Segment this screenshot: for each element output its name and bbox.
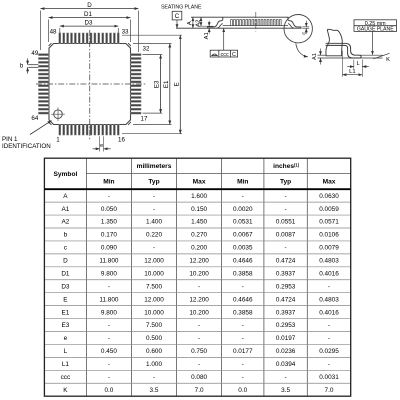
svg-text:-: - xyxy=(153,206,155,213)
svg-text:0.050: 0.050 xyxy=(101,206,117,213)
svg-text:10.000: 10.000 xyxy=(144,309,164,316)
svg-text:0.600: 0.600 xyxy=(146,348,162,355)
svg-text:0.220: 0.220 xyxy=(146,232,162,239)
svg-text:3.5: 3.5 xyxy=(150,387,159,394)
svg-text:7.0: 7.0 xyxy=(195,387,204,394)
dimension E3 xyxy=(143,54,163,56)
datum C box xyxy=(172,11,182,20)
svg-text:-: - xyxy=(328,322,330,329)
svg-text:0.4724: 0.4724 xyxy=(276,296,296,303)
corner chamfer marks xyxy=(49,43,52,46)
seating plane line xyxy=(176,27,302,29)
svg-text:48: 48 xyxy=(50,29,57,36)
svg-text:12.000: 12.000 xyxy=(144,258,164,265)
svg-text:IDENTIFICATION: IDENTIFICATION xyxy=(2,143,51,150)
svg-text:9.800: 9.800 xyxy=(101,270,117,277)
svg-text:0.4646: 0.4646 xyxy=(233,296,253,303)
dimension E1 xyxy=(133,43,172,45)
dimension D1 xyxy=(48,20,50,43)
dimension L xyxy=(353,60,355,69)
centerlines xyxy=(36,83,146,85)
svg-text:SEATING PLANE: SEATING PLANE xyxy=(161,5,202,11)
dimension c (lead thickness) xyxy=(305,21,307,27)
pin 1 identification circle xyxy=(54,110,63,119)
svg-text:-: - xyxy=(153,374,155,381)
side view leads (ribs) xyxy=(231,20,282,26)
svg-text:A: A xyxy=(187,21,193,25)
svg-text:0.4016: 0.4016 xyxy=(319,270,339,277)
svg-text:D1: D1 xyxy=(84,11,92,18)
svg-text:0.0031: 0.0031 xyxy=(319,374,339,381)
dimension D xyxy=(39,11,41,51)
svg-text:-: - xyxy=(108,374,110,381)
svg-text:0.200: 0.200 xyxy=(191,245,207,252)
svg-text:0.3858: 0.3858 xyxy=(233,309,253,316)
svg-text:0.450: 0.450 xyxy=(101,348,117,355)
svg-text:32: 32 xyxy=(143,46,150,53)
svg-text:12.200: 12.200 xyxy=(189,296,209,303)
svg-text:D: D xyxy=(63,258,68,265)
side view left lead xyxy=(208,17,223,28)
svg-text:1.400: 1.400 xyxy=(146,219,162,226)
svg-text:0.0571: 0.0571 xyxy=(319,219,339,226)
svg-text:-: - xyxy=(285,206,287,213)
svg-text:0.4016: 0.4016 xyxy=(319,309,339,316)
svg-text:10.200: 10.200 xyxy=(189,309,209,316)
dimension e (pitch) xyxy=(99,136,101,151)
svg-text:E1: E1 xyxy=(61,309,69,316)
svg-text:0.500: 0.500 xyxy=(146,335,162,342)
svg-text:-: - xyxy=(153,245,155,252)
svg-text:Max: Max xyxy=(323,179,336,186)
svg-text:7.0: 7.0 xyxy=(325,387,334,394)
svg-text:0.090: 0.090 xyxy=(101,245,117,252)
svg-text:0.3937: 0.3937 xyxy=(276,309,296,316)
svg-text:-: - xyxy=(242,322,244,329)
side view body xyxy=(191,16,289,18)
svg-text:-: - xyxy=(108,193,110,200)
svg-text:ccc: ccc xyxy=(221,52,229,58)
svg-text:E3: E3 xyxy=(61,322,69,329)
svg-text:-: - xyxy=(242,361,244,368)
body standoff line xyxy=(318,54,327,56)
lead detail lead xyxy=(326,43,362,58)
svg-text:0.270: 0.270 xyxy=(191,232,207,239)
svg-text:49: 49 xyxy=(31,50,38,57)
svg-text:-: - xyxy=(328,361,330,368)
svg-text:0.0394: 0.0394 xyxy=(276,361,296,368)
svg-text:PIN 1: PIN 1 xyxy=(2,136,18,143)
svg-text:-: - xyxy=(198,322,200,329)
svg-text:10.200: 10.200 xyxy=(189,270,209,277)
svg-text:1.600: 1.600 xyxy=(191,193,207,200)
svg-text:A: A xyxy=(63,193,68,200)
svg-text:0.0035: 0.0035 xyxy=(233,245,253,252)
table headers xyxy=(53,162,335,185)
svg-text:D3: D3 xyxy=(85,19,93,26)
svg-text:-: - xyxy=(198,283,200,290)
svg-text:A2: A2 xyxy=(61,219,69,226)
svg-text:9.800: 9.800 xyxy=(101,309,117,316)
svg-text:0.0295: 0.0295 xyxy=(319,348,339,355)
svg-text:L1: L1 xyxy=(349,69,355,75)
svg-text:7.500: 7.500 xyxy=(146,322,162,329)
svg-text:-: - xyxy=(153,193,155,200)
gauge plane box xyxy=(354,20,397,32)
svg-text:0.0177: 0.0177 xyxy=(233,348,253,355)
svg-text:-: - xyxy=(328,335,330,342)
dimension K (angle) xyxy=(374,53,390,59)
svg-text:-: - xyxy=(285,374,287,381)
svg-text:0.4803: 0.4803 xyxy=(319,296,339,303)
svg-text:-: - xyxy=(108,335,110,342)
svg-text:-: - xyxy=(198,335,200,342)
svg-text:e: e xyxy=(100,143,103,149)
svg-text:D3: D3 xyxy=(61,283,70,290)
svg-text:E1: E1 xyxy=(163,80,170,88)
svg-text:A1: A1 xyxy=(61,206,69,213)
dimension E xyxy=(122,34,182,36)
svg-text:E: E xyxy=(63,296,67,303)
svg-text:-: - xyxy=(198,361,200,368)
svg-text:0.0630: 0.0630 xyxy=(319,193,339,200)
svg-text:Symbol: Symbol xyxy=(53,171,77,178)
svg-text:0.3937: 0.3937 xyxy=(276,270,296,277)
svg-text:Min: Min xyxy=(237,179,248,186)
svg-text:millimeters: millimeters xyxy=(137,163,172,170)
detail circle xyxy=(284,15,312,43)
pin 1 leader xyxy=(30,121,52,135)
svg-text:GAUGE PLANE: GAUGE PLANE xyxy=(357,26,394,32)
svg-text:11.800: 11.800 xyxy=(99,296,119,303)
table data xyxy=(61,193,340,394)
svg-text:D: D xyxy=(87,2,92,9)
svg-text:0.0551: 0.0551 xyxy=(276,219,296,226)
dimension A2 xyxy=(200,17,202,26)
svg-text:-: - xyxy=(285,245,287,252)
svg-text:-: - xyxy=(285,193,287,200)
svg-text:K: K xyxy=(63,387,68,394)
gauge plane leader xyxy=(372,31,374,55)
svg-text:17: 17 xyxy=(141,115,148,122)
package body U1 (top view) xyxy=(49,44,131,125)
pins 1..16 (bottom row) xyxy=(59,125,120,136)
dimension D3 xyxy=(59,28,61,33)
dimension A1 xyxy=(208,21,210,26)
pins 48..33 (top row) xyxy=(59,33,120,44)
svg-text:b: b xyxy=(64,232,68,239)
tolerance frame leader xyxy=(223,28,225,50)
svg-text:0.0087: 0.0087 xyxy=(276,232,296,239)
svg-text:-: - xyxy=(328,283,330,290)
svg-text:0.4724: 0.4724 xyxy=(276,258,296,265)
svg-text:A1: A1 xyxy=(204,32,210,39)
svg-text:E: E xyxy=(173,82,180,86)
svg-text:K: K xyxy=(386,57,390,63)
svg-text:10.000: 10.000 xyxy=(144,270,164,277)
svg-text:L1: L1 xyxy=(62,361,70,368)
svg-text:-: - xyxy=(108,283,110,290)
svg-text:0.0: 0.0 xyxy=(238,387,247,394)
svg-text:1.450: 1.450 xyxy=(191,219,207,226)
svg-text:b: b xyxy=(20,62,24,69)
svg-text:0.0106: 0.0106 xyxy=(319,232,339,239)
svg-text:-: - xyxy=(242,374,244,381)
svg-text:1.350: 1.350 xyxy=(101,219,117,226)
svg-text:0.4803: 0.4803 xyxy=(319,258,339,265)
svg-text:0.080: 0.080 xyxy=(191,374,207,381)
dimension table grid xyxy=(44,158,350,396)
pins 49..64 (left column) xyxy=(38,54,49,115)
svg-text:1.000: 1.000 xyxy=(146,361,162,368)
flatness tolerance frame ccc C xyxy=(210,50,237,57)
svg-text:0.0067: 0.0067 xyxy=(233,232,253,239)
svg-text:Typ: Typ xyxy=(148,179,159,186)
pins 32..17 (right column) xyxy=(131,54,142,115)
dimension A xyxy=(192,17,194,28)
svg-text:0.0020: 0.0020 xyxy=(233,206,253,213)
svg-text:-: - xyxy=(242,335,244,342)
svg-text:0.0197: 0.0197 xyxy=(276,335,296,342)
svg-text:0.0079: 0.0079 xyxy=(319,245,339,252)
svg-text:L: L xyxy=(64,348,68,355)
svg-text:-: - xyxy=(108,322,110,329)
svg-text:0.2953: 0.2953 xyxy=(276,322,296,329)
svg-text:0.2953: 0.2953 xyxy=(276,283,296,290)
svg-text:0.0531: 0.0531 xyxy=(233,219,253,226)
svg-text:64: 64 xyxy=(31,115,38,122)
svg-text:0.150: 0.150 xyxy=(191,206,207,213)
svg-text:16: 16 xyxy=(118,137,125,144)
datum C leader xyxy=(176,20,178,28)
svg-text:Typ: Typ xyxy=(280,179,291,186)
svg-text:33: 33 xyxy=(122,29,129,36)
lead detail body section xyxy=(326,29,342,56)
svg-text:0.0: 0.0 xyxy=(104,387,113,394)
svg-text:Max: Max xyxy=(193,179,206,186)
svg-text:3.5: 3.5 xyxy=(281,387,290,394)
svg-text:7.500: 7.500 xyxy=(146,283,162,290)
svg-text:c: c xyxy=(302,32,308,35)
svg-text:A1: A1 xyxy=(312,53,318,60)
svg-text:A2: A2 xyxy=(195,20,201,27)
svg-text:ccc: ccc xyxy=(61,374,71,381)
svg-text:Min: Min xyxy=(103,179,114,186)
svg-text:1: 1 xyxy=(56,137,60,144)
svg-text:12.000: 12.000 xyxy=(144,296,164,303)
svg-text:0.3858: 0.3858 xyxy=(233,270,253,277)
svg-text:-: - xyxy=(242,283,244,290)
svg-text:0.4646: 0.4646 xyxy=(233,258,253,265)
svg-text:0.0059: 0.0059 xyxy=(319,206,339,213)
svg-text:D1: D1 xyxy=(61,270,70,277)
dimension b (lead width) xyxy=(28,64,38,66)
svg-text:-: - xyxy=(108,361,110,368)
svg-text:e: e xyxy=(64,335,68,342)
svg-text:12.200: 12.200 xyxy=(189,258,209,265)
dimension A1 (detail) xyxy=(320,49,322,56)
svg-text:C: C xyxy=(175,13,180,20)
side view right lead xyxy=(288,17,301,28)
side view centerline xyxy=(255,12,257,32)
svg-text:-: - xyxy=(242,193,244,200)
dimension L1 xyxy=(341,51,343,77)
svg-text:11.800: 11.800 xyxy=(99,258,119,265)
svg-text:C: C xyxy=(232,52,236,58)
svg-text:0.0236: 0.0236 xyxy=(276,348,296,355)
svg-text:0.170: 0.170 xyxy=(101,232,117,239)
seating plane (detail) xyxy=(318,57,383,59)
gauge plane line (detail) xyxy=(357,54,383,56)
svg-text:0.750: 0.750 xyxy=(191,348,207,355)
detail leader arrow xyxy=(296,43,308,56)
svg-text:E3: E3 xyxy=(154,80,161,88)
